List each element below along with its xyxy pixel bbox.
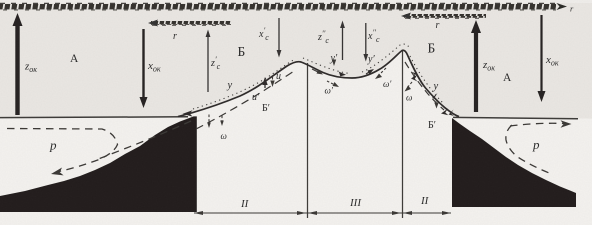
right middle bar arrowhead [401, 13, 411, 20]
dashed B' line right (below curve) [405, 62, 444, 110]
dashed down arrow u [272, 77, 274, 82]
ground line left [0, 116, 188, 119]
dim arrowhead right end [442, 211, 451, 215]
main water-surface curve [178, 50, 459, 116]
left middle bar arrowhead [148, 20, 158, 27]
right circulation loop p (dashed) [506, 123, 564, 174]
curve start arrowhead (pointing left-down) [183, 110, 193, 116]
small down arrowhead y' left [332, 60, 336, 67]
up-right arrowhead on rise to second peak [366, 72, 370, 75]
dotted trajectory line above curve [193, 44, 443, 109]
dashed down arrow omega left 2 [221, 116, 223, 122]
dashed B' line left (below curve) [196, 71, 294, 129]
dashed arrow omega right of peak (down-left) [407, 82, 412, 88]
right loop arrowhead [561, 120, 572, 127]
dimension line II (right) [402, 212, 451, 214]
background upper gray region bounded by surface profile [0, 0, 592, 119]
left middle hatched bar [151, 21, 231, 25]
arrow x_ok left (down) [140, 29, 148, 108]
small arrowhead at right corner pointing down-left [441, 109, 448, 116]
divider line right (region III/II boundary) [402, 51, 404, 218]
small arrow below first peak (down-right) [312, 69, 319, 73]
arrow z'_c (thin up) [206, 30, 211, 93]
dashed arrow omega' left [327, 81, 334, 85]
dimension line III [307, 212, 402, 214]
thick arrow z_ok right [471, 20, 481, 112]
arrow z''_c (thin up) [340, 21, 345, 61]
tangent arrowheads on right descent [411, 75, 418, 82]
top hatched ceiling strip [0, 3, 556, 10]
right middle hatched bar [404, 14, 486, 18]
dashed down arrow omega left 1 [208, 115, 210, 124]
dashed down arrow near right corner [436, 99, 438, 104]
solid up arrow u' [264, 81, 266, 88]
thick arrow z_ok left [13, 13, 23, 115]
dim arrowhead left end [194, 211, 203, 215]
arrow x_ok right (down) [538, 15, 546, 102]
top white margin strip [0, 0, 592, 3]
divider line left (region II/III boundary) [307, 63, 309, 218]
dashed arrow omega' right (down-left) [379, 68, 386, 75]
dim arrowheads at divider left [297, 211, 306, 215]
arrow x'_c (thin down) [277, 18, 282, 58]
left loop arrowhead [51, 168, 64, 176]
dimension line II (left) [194, 212, 307, 214]
arrow x''_c (thin down) [363, 23, 368, 62]
left black wedge [0, 116, 197, 212]
tangent arrowhead mid dip [339, 72, 346, 77]
ground line right [453, 117, 578, 118]
dim arrowheads at divider right [392, 211, 401, 215]
left circulation loop p (dashed) [7, 121, 191, 172]
ceiling strip end arrow [557, 3, 568, 10]
right black wedge [452, 118, 576, 207]
